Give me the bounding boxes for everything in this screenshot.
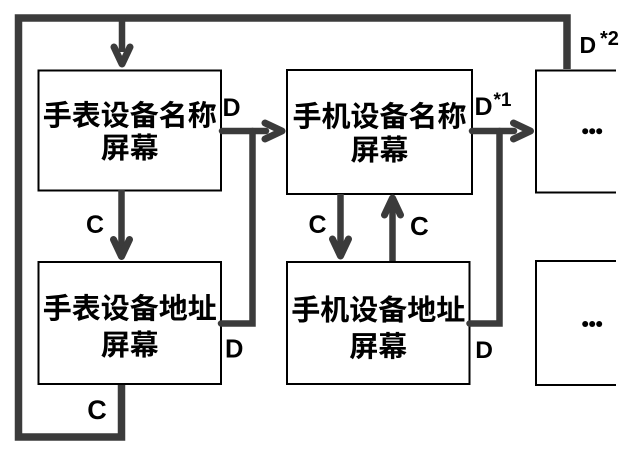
box B6: further screen (...) open right side (536, 261, 616, 385)
label: box B4 text 手机设备地址 / 屏幕 (292, 295, 464, 322)
svg-text:C: C (86, 211, 104, 239)
svg-text:D: D (475, 93, 493, 121)
svg-text:D: D (223, 94, 241, 122)
label: box B2 text 手机设备名称 / 屏幕 (294, 102, 466, 129)
box B4: phone device address screen (287, 262, 470, 384)
wire: D transition from B4 joining the B5 arrow (T junction) (470, 131, 500, 324)
box B5: further screen (...) open right side (536, 71, 616, 193)
svg-text:C: C (410, 211, 429, 241)
wire: C transition B1 -> B3 (118, 190, 125, 252)
arrowhead into box1 top (114, 47, 130, 64)
wire: C transition B4 -> B2 (389, 203, 396, 261)
label: box B3 text 手表设备地址 / 屏幕 (44, 294, 216, 321)
label: ellipsis dots in B6 (582, 321, 588, 327)
svg-text:C: C (309, 211, 327, 239)
arrowhead into box2 left (265, 123, 282, 139)
box B1: watch device name screen (39, 71, 222, 191)
arrowhead into box2 bottom (385, 198, 401, 215)
svg-text:C: C (87, 395, 107, 425)
svg-text:D: D (225, 336, 243, 364)
wire: D*1 transition B2 -> B5 (472, 128, 514, 135)
arrowhead into box5 left (514, 123, 531, 139)
box B2: phone device name screen (287, 70, 472, 194)
wire: D transition from B3 joining the B2 arrow (T junction) (221, 131, 253, 324)
box B3: watch device address screen (39, 262, 222, 384)
wire: D transition B1 -> B2 (222, 128, 266, 135)
wire: branch from top line down into box1 (119, 18, 126, 52)
svg-text:*1: *1 (494, 90, 512, 111)
svg-text:*2: *2 (600, 28, 619, 50)
wire: C transition B2 -> B4 (337, 194, 344, 252)
label: ellipsis dots in B5 (582, 128, 588, 134)
arrowhead into box4 top (333, 239, 349, 256)
svg-text:D: D (580, 32, 597, 58)
arrowhead into box3 top (114, 240, 130, 257)
wire: D*2 return path (from box5 top, across top, down left side, along bottom, up to box3 bottom) (19, 18, 568, 437)
svg-text:D: D (475, 337, 493, 364)
label: box B1 text 手表设备名称 / 屏幕 (44, 101, 216, 128)
